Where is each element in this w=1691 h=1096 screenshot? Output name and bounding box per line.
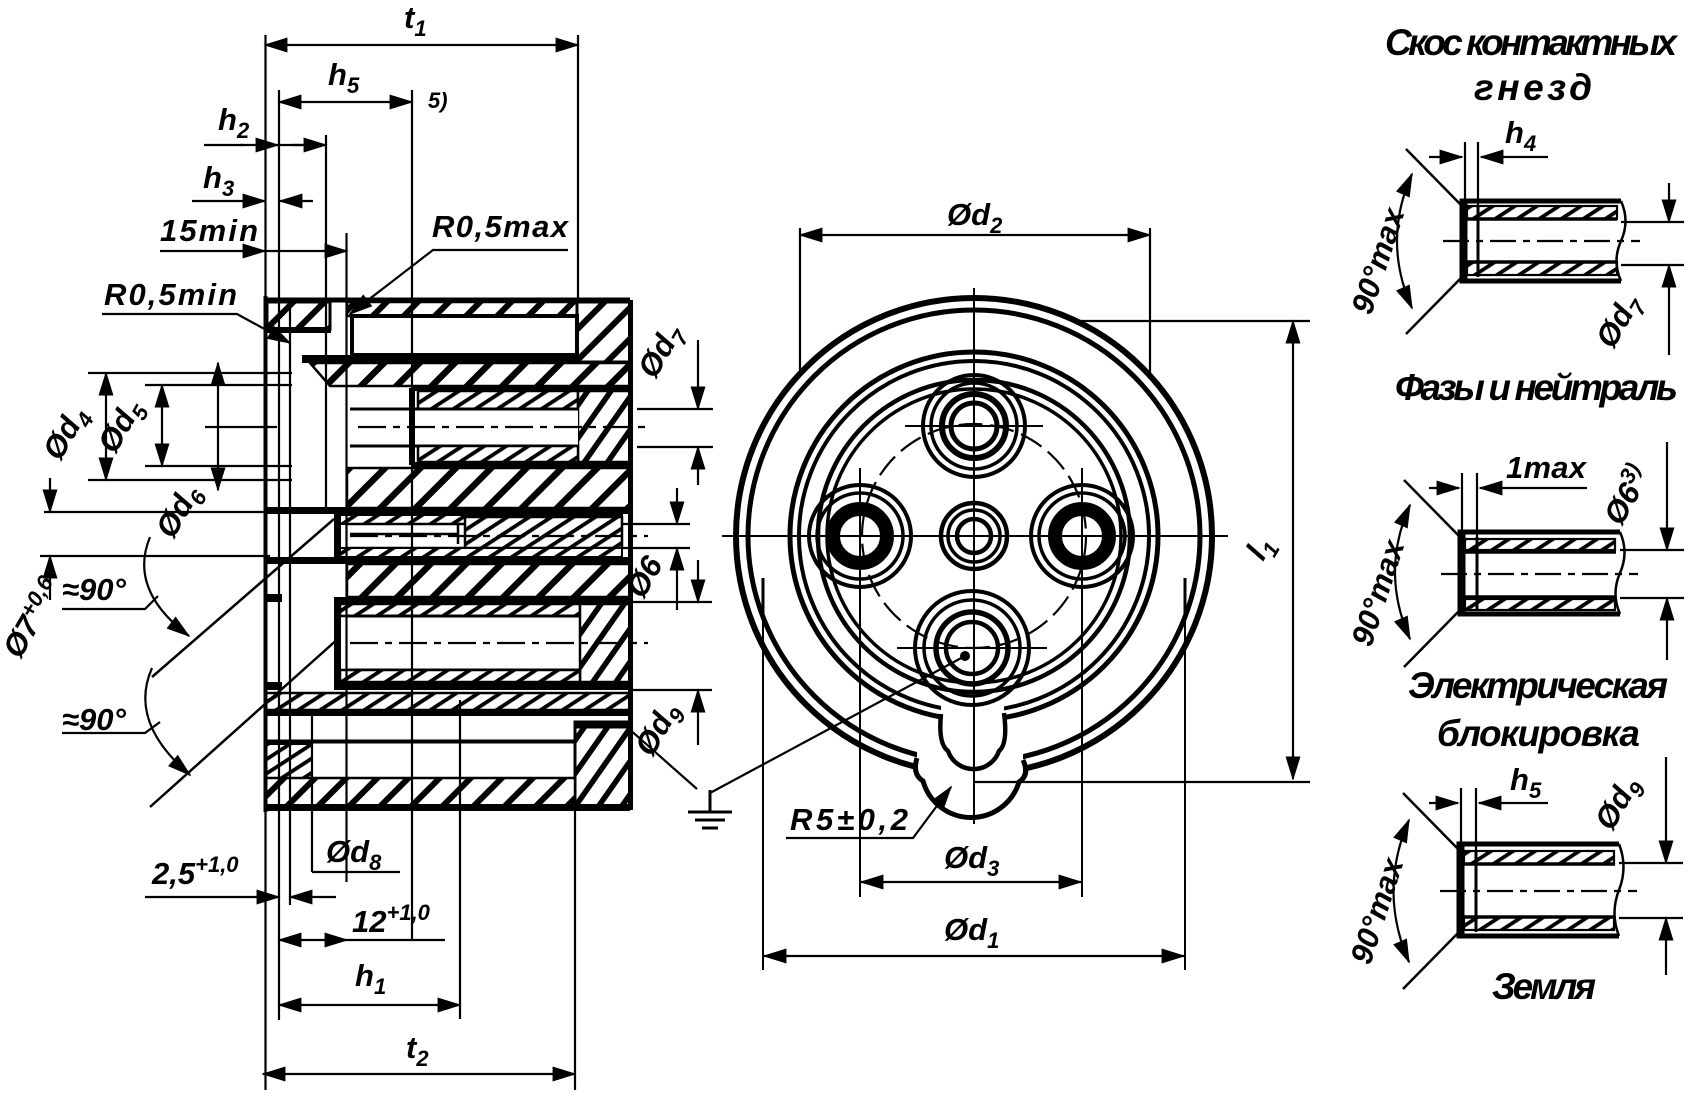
center line horizontal bbox=[722, 535, 1228, 537]
chamfer ray down bbox=[1404, 610, 1460, 667]
flange lip thick line bbox=[264, 327, 331, 333]
tube top wall bbox=[1467, 206, 1617, 219]
upper sleeve top thick line bbox=[412, 385, 632, 391]
svg-text:Скос контактных: Скос контактных bbox=[1385, 22, 1678, 63]
recess circle 1 bbox=[818, 380, 1130, 692]
dim od7 right bbox=[637, 409, 713, 447]
svg-text:≈90°: ≈90° bbox=[62, 702, 126, 737]
dim od7 bbox=[1621, 222, 1684, 265]
line x265 bbox=[264, 35, 266, 1090]
earth mouth vertical bbox=[334, 597, 341, 690]
earth bottom wall fine hatch bbox=[340, 670, 580, 682]
tube top wall bbox=[1465, 539, 1615, 550]
leader R5 bbox=[786, 787, 951, 838]
tube bottom wall bbox=[1467, 262, 1617, 275]
dim h5 bbox=[1429, 802, 1458, 804]
line x347 bbox=[345, 233, 347, 882]
outer circle 1 bbox=[736, 298, 1212, 774]
svg-text:15min: 15min bbox=[160, 213, 258, 248]
svg-text:гнезд: гнезд bbox=[1474, 67, 1592, 108]
outer tab bump bbox=[915, 758, 1025, 818]
skirt bottom thick line bbox=[265, 804, 630, 811]
tube axis bbox=[1443, 240, 1640, 242]
dim h5 bbox=[279, 101, 412, 103]
svg-text:R0,5max: R0,5max bbox=[432, 209, 570, 244]
dim od1 bbox=[763, 592, 1185, 970]
skirt bottom hatch band F bbox=[266, 778, 575, 806]
axis interlock bbox=[350, 535, 648, 537]
tube outline bbox=[1459, 844, 1619, 936]
earth face lip marks bbox=[265, 594, 282, 602]
tube front inner line bbox=[1476, 537, 1479, 610]
ground leader from section bbox=[628, 728, 697, 789]
face circle 1 bbox=[790, 352, 1158, 720]
earth flare ray B bbox=[150, 637, 340, 807]
earth end block bbox=[580, 604, 630, 682]
tube end break bbox=[1615, 844, 1624, 936]
angle arc bbox=[1395, 505, 1410, 639]
upper sleeve bottom thick line bbox=[412, 462, 632, 468]
dim h1 bbox=[279, 1004, 460, 1006]
interlock top wall fine hatch bbox=[340, 515, 622, 524]
svg-text:≈90°: ≈90° bbox=[62, 572, 126, 607]
center line vertical bbox=[973, 288, 975, 824]
dim o7 bbox=[49, 478, 51, 512]
tube front inner line bbox=[1475, 850, 1478, 932]
outer circle 2 bbox=[748, 310, 1200, 762]
line x290 bbox=[289, 300, 291, 905]
svg-text:1max: 1max bbox=[1506, 450, 1588, 485]
interlock bottom thick line bbox=[265, 557, 632, 564]
line x460 bbox=[459, 700, 461, 1019]
dim od2 bbox=[800, 228, 1150, 376]
tube axis bbox=[1440, 890, 1637, 892]
leader R0,5max bbox=[350, 250, 568, 314]
dim od4 bbox=[105, 373, 107, 480]
angle arc bbox=[1394, 820, 1410, 962]
hatch band B bbox=[310, 363, 630, 386]
leader R0,5min bbox=[102, 314, 290, 343]
dim 2,5 bbox=[145, 896, 279, 898]
od5 feature lines bbox=[145, 385, 292, 466]
tube end break bbox=[1617, 201, 1626, 281]
tube bottom wall bbox=[1465, 599, 1615, 610]
tube bottom wall bbox=[1464, 917, 1614, 930]
interlock bottom wall fine hatch bbox=[340, 548, 622, 557]
dashed pitch circle bbox=[862, 424, 1086, 648]
hatch band A left block bbox=[267, 302, 330, 329]
skirt end block top line bbox=[575, 723, 630, 729]
dim h3 bbox=[192, 200, 265, 202]
skirt step line bbox=[265, 740, 575, 744]
dim od6 bbox=[217, 363, 219, 490]
body top thick bbox=[265, 298, 630, 303]
side notch left bbox=[762, 578, 765, 620]
dim od9 bbox=[1619, 863, 1683, 918]
line x312 bbox=[311, 714, 313, 872]
svg-text:Земля: Земля bbox=[1492, 966, 1596, 1007]
top hole bbox=[905, 375, 1043, 477]
dim od3 bbox=[860, 590, 1082, 897]
dim h4 bbox=[1429, 156, 1462, 158]
right hole bbox=[1031, 468, 1133, 604]
tube outline bbox=[1460, 532, 1620, 614]
earth top wall fine hatch bbox=[340, 604, 580, 616]
recess white rect bbox=[352, 316, 577, 355]
bottom hole bbox=[897, 591, 1047, 705]
earth lower second wall fine hatch bbox=[266, 693, 630, 710]
arc 90deg upper bbox=[62, 596, 158, 609]
interlock contact fill fine hatch bbox=[465, 517, 622, 548]
earth bottom thick line bbox=[334, 682, 632, 690]
face tab bump bbox=[940, 713, 1005, 769]
recess circle 2 bbox=[827, 389, 1121, 683]
svg-text:Электрическая: Электрическая bbox=[1408, 665, 1668, 706]
line x578 top bbox=[577, 35, 579, 300]
body right edge bbox=[628, 300, 633, 810]
dim od5 bbox=[161, 385, 163, 466]
dim o6 bbox=[1620, 550, 1684, 598]
interlock mouth vertical bbox=[334, 508, 341, 564]
line x279 bbox=[278, 90, 280, 1020]
center hole bbox=[941, 503, 1007, 569]
svg-text:блокировка: блокировка bbox=[1437, 713, 1640, 754]
earth bore white bbox=[347, 616, 580, 670]
tube outline bbox=[1462, 201, 1621, 281]
arc 90deg lower bbox=[62, 722, 160, 733]
upper sleeve top wall fine hatch bbox=[418, 391, 578, 409]
ground symbol bbox=[688, 790, 732, 828]
od4 feature lines bbox=[88, 373, 292, 480]
detail 1 phases socket bbox=[1397, 142, 1684, 355]
chamfer ray up bbox=[1403, 793, 1459, 850]
o7 corridor lines bbox=[40, 512, 350, 556]
earth top thick line bbox=[334, 597, 632, 604]
left hole bbox=[809, 468, 911, 604]
axis earth bbox=[350, 642, 648, 644]
dim 15min bbox=[160, 250, 265, 252]
dim t1 bbox=[265, 44, 578, 46]
hatch band C bbox=[347, 468, 630, 508]
interlock contact finger bbox=[350, 524, 458, 544]
leader od8 bbox=[312, 871, 400, 873]
face circle 2 bbox=[799, 361, 1149, 711]
interlock top thick line bbox=[265, 507, 632, 514]
detail 3 earth socket bbox=[1394, 757, 1684, 989]
tube end break bbox=[1616, 532, 1625, 614]
angle arc bbox=[1397, 174, 1412, 308]
upper sleeve end block bbox=[578, 391, 630, 462]
dim t2 bbox=[263, 1073, 575, 1075]
line x412 bbox=[411, 90, 413, 940]
dim o6 right bbox=[622, 524, 690, 548]
thick line under recess bbox=[302, 355, 578, 363]
dim 12 bbox=[279, 939, 310, 941]
axes and feature lines bbox=[40, 373, 648, 807]
front view dimensions bbox=[628, 228, 1310, 970]
skirt end block bbox=[575, 722, 630, 808]
tube front inner line bbox=[1477, 206, 1480, 277]
line x326 bbox=[325, 135, 327, 510]
dim 1max bbox=[1429, 487, 1459, 489]
upper sleeve bottom wall fine hatch bbox=[418, 446, 578, 462]
chamfer ray up bbox=[1404, 480, 1460, 537]
hatch band A right block bbox=[577, 302, 630, 362]
svg-text:Фазы и нейтраль: Фазы и нейтраль bbox=[1395, 367, 1678, 408]
construction verticals bbox=[266, 35, 579, 1090]
interlock bore white bbox=[347, 524, 465, 548]
flange bottom hatch small bbox=[266, 744, 312, 781]
upper bore white bbox=[350, 409, 578, 446]
skirt top thick line bbox=[265, 710, 630, 716]
side notch right bbox=[1184, 578, 1187, 620]
line x575 bbox=[574, 810, 576, 1090]
hatch band D bbox=[347, 564, 630, 597]
chamfer ray down bbox=[1406, 277, 1462, 334]
earth leader bbox=[710, 656, 965, 793]
detail 2 interlock socket bbox=[1395, 442, 1684, 667]
chamfer ray down bbox=[1403, 932, 1459, 989]
svg-text:R5±0,2: R5±0,2 bbox=[790, 802, 908, 837]
dim h2 bbox=[204, 144, 244, 146]
dim l1 bbox=[974, 321, 1310, 782]
tube top wall bbox=[1464, 851, 1614, 864]
axis upper socket bbox=[205, 426, 277, 428]
interlock flare ray A bbox=[152, 519, 334, 677]
dim od9 right bbox=[632, 602, 712, 690]
body face thick bbox=[264, 296, 268, 812]
svg-text:5): 5) bbox=[428, 88, 448, 113]
chamfer ray up bbox=[1406, 149, 1462, 206]
hatch band A recess strip bbox=[347, 302, 577, 316]
tube axis bbox=[1441, 573, 1638, 575]
tab white patch bbox=[917, 700, 1023, 778]
